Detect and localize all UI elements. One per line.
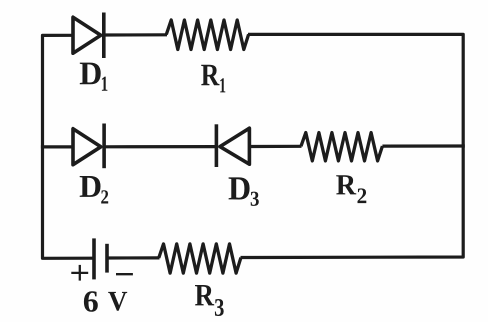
label glyph R2 main [336,175,356,194]
label glyph R3 sub [215,299,224,316]
wire middle branch left segment [41,145,74,148]
resistor R3 [159,244,241,273]
label glyph D3 sub [251,192,259,206]
diode D3 [216,124,249,167]
wire outer right loop: top-right corner, right vertical, bottom-right corner [241,34,464,257]
resistor R2 [301,133,382,161]
resistor R1 [166,20,248,50]
label glyph R1 main [201,65,219,85]
battery long plate (+) [92,238,96,279]
diode D1 [73,13,104,59]
label glyph R1 sub [220,78,225,92]
label glyph R3 main [195,285,214,305]
label glyph R2 sub [358,188,367,203]
wire R2 to right vertical [382,144,464,147]
battery minus sign [116,273,133,275]
label glyph 6V 6 [84,291,98,312]
battery short plate (-) [105,244,109,273]
label glyph D2 main [80,176,101,197]
wire outer left loop: top-left corner, left vertical, bottom-left corner [43,35,95,258]
label glyph D2 sub [101,190,108,203]
wire D1 to R1 [104,33,167,36]
label glyph 6V V [108,292,127,311]
diode D2 [73,124,104,169]
wire D3 to R2 [249,145,301,148]
wire battery to R3 [107,256,160,259]
label glyph D1 main [80,63,101,85]
battery plus sign [71,265,88,281]
wire D2 to D3 [104,145,216,148]
label glyph D1 sub [102,77,108,91]
label glyph D3 main [229,177,250,199]
